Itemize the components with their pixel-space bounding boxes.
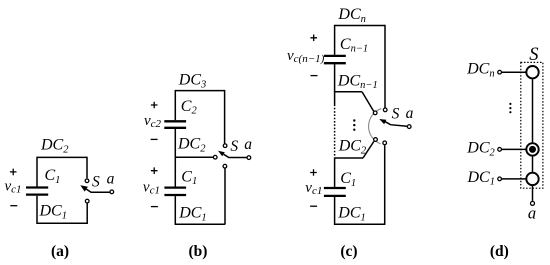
wire (c) tap 2 horizontal: [335, 157, 363, 159]
label DC1 (a): [39, 203, 67, 222]
wire (c) tap 2 diagonal: [363, 141, 374, 158]
node: DCn terminal (d): [498, 70, 502, 74]
label + (c): [310, 35, 317, 42]
label S (a): [92, 173, 100, 190]
node: middle contact (b): [213, 155, 217, 159]
wire (c) left solid stub: [334, 91, 336, 104]
svg-text:(b): (b): [189, 243, 208, 260]
wire (c) top side: [335, 25, 385, 27]
node: contact 2 left (c): [374, 138, 378, 142]
wire (b) right side lower: [224, 168, 226, 224]
label DCn (d): [466, 61, 494, 80]
label a (b): [244, 136, 252, 153]
svg-text:S: S: [230, 138, 238, 155]
label C1 (b): [181, 168, 197, 187]
label + (a): [10, 169, 17, 176]
svg-text:(c): (c): [340, 243, 357, 260]
label vc2 (b): [144, 113, 162, 130]
label minus lower (b): [151, 206, 158, 208]
wire (c) tap n-1 diagonal: [362, 92, 374, 111]
wire selector to output a (d): [532, 186, 534, 201]
wire (a) top side: [37, 156, 87, 158]
wire (c) left side below cap: [334, 64, 336, 92]
caption (b): [189, 243, 208, 260]
label Cn-1 (c): [340, 36, 368, 55]
svg-text:a: a: [107, 171, 115, 188]
switch S blade (b): [218, 151, 247, 158]
label DC2 (d): [466, 140, 495, 159]
node: DC2 terminal (d): [498, 148, 502, 152]
caption (a): [51, 243, 69, 260]
wire (c) left side lower: [334, 197, 336, 224]
wire (b) top side: [175, 90, 224, 92]
vertical dots (c): [353, 119, 355, 131]
label S (b): [230, 138, 238, 155]
switch S blade (c): [379, 119, 407, 126]
capacitor C2 (b): [164, 121, 186, 128]
svg-text:S: S: [392, 105, 400, 122]
wire DCn to selector (d): [502, 71, 526, 73]
node: switch bottom contact (a): [85, 199, 89, 203]
wire (c) right side lower: [384, 145, 386, 224]
wire (c) bottom side: [334, 223, 386, 225]
label minus upper (b): [151, 138, 158, 140]
caption (d): [490, 243, 509, 260]
capacitor C1 (a): [26, 188, 48, 195]
label DC3 (b): [178, 72, 206, 91]
wire (b) left side middle: [174, 129, 176, 187]
label C2 (b): [181, 98, 198, 117]
terminal a node (d): [531, 201, 535, 205]
wire selector 2 to 1 (d): [532, 156, 534, 172]
wire (b) right side upper: [224, 90, 226, 144]
label minus lower (c): [310, 205, 317, 207]
node: DC1 terminal (d): [498, 177, 502, 181]
selector contact 1 (d): [526, 173, 538, 185]
rotation arc (c): [369, 109, 382, 144]
label DCn (c): [337, 6, 365, 25]
label + lower (c): [310, 169, 317, 176]
caption (c): [340, 243, 357, 260]
wire (a) left side lower: [36, 196, 38, 224]
label DC1 (b): [178, 205, 206, 224]
wire (c) left side middle: [334, 158, 336, 187]
label vc1 (b): [143, 180, 160, 197]
svg-text:(d): (d): [490, 243, 509, 260]
svg-text:a: a: [528, 204, 536, 223]
wire (b) middle tap: [175, 156, 213, 158]
wire DC2 to selector (d): [502, 148, 526, 150]
capacitor C1 (b): [164, 188, 186, 195]
label DC2 (a): [40, 137, 69, 156]
svg-text:a: a: [244, 136, 252, 153]
wire (a) left side upper: [36, 157, 38, 187]
label S (d): [529, 45, 538, 65]
wire (a) right side lower: [86, 203, 88, 224]
label + lower (b): [151, 167, 158, 174]
node: switch top contact (a): [85, 179, 89, 183]
label minus (a): [10, 205, 17, 207]
wire (c) left dotted continuation: [334, 105, 336, 158]
svg-text:(a): (a): [51, 243, 69, 260]
label C1 (c): [340, 170, 356, 189]
wire (a) bottom side: [37, 222, 87, 224]
label S (c): [392, 105, 400, 122]
label DC1 (d): [467, 169, 495, 188]
wire (b) bottom side: [175, 223, 226, 225]
svg-text:S: S: [92, 173, 100, 190]
terminal a node (c): [407, 125, 411, 129]
wire (b) left side lower: [174, 196, 176, 224]
dotted selector box (d): [521, 62, 543, 188]
node: contact 1 right (c): [383, 141, 387, 145]
label C1 (a): [45, 167, 61, 186]
capacitor C1 (c): [324, 188, 346, 196]
selector contact 2 selected (d): [526, 143, 538, 155]
label minus (c): [311, 75, 318, 77]
node: switch bottom contact (b): [223, 164, 227, 168]
wire (c) left side upper: [334, 25, 336, 55]
label DC2 (b): [177, 136, 206, 155]
label a (a): [107, 171, 115, 188]
selector contact n (d): [526, 66, 538, 78]
wire DC1 to selector (d): [502, 178, 526, 180]
svg-text:a: a: [406, 105, 414, 122]
wire (c) tap n-1 horizontal: [335, 91, 362, 93]
wire (b) left side upper: [174, 90, 176, 120]
node: contact n right (c): [383, 108, 387, 112]
label vc1 (a): [5, 179, 22, 196]
capacitor Cn-1 (c): [324, 56, 346, 63]
label + upper (b): [151, 102, 158, 109]
label DC2 (c): [338, 138, 367, 157]
label DC1 (c): [337, 205, 365, 224]
terminal a node (b): [247, 156, 251, 160]
node: switch top contact (b): [223, 144, 227, 148]
label vc(n-1) (c): [287, 48, 325, 65]
switch S blade (a): [80, 185, 109, 192]
wire (a) right side upper: [86, 157, 88, 179]
label DCn-1 (c): [337, 72, 378, 91]
label vc1 (c): [305, 180, 322, 197]
terminal a node (a): [110, 190, 114, 194]
wire selector n to 2 (d): [532, 79, 534, 142]
label a (c): [406, 105, 414, 122]
wire (c) right side upper: [384, 25, 386, 108]
label a (d): [528, 204, 536, 223]
node: contact n-1 left (c): [373, 111, 377, 115]
vertical dots (d): [509, 103, 511, 113]
